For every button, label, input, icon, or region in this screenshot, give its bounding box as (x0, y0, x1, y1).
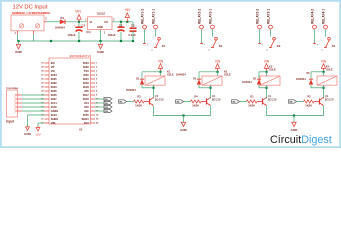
svg-text:RELAY1-1: RELAY1-1 (151, 9, 155, 24)
svg-text:+5V: +5V (35, 133, 40, 137)
svg-text:IO23: IO23 (83, 61, 89, 65)
svg-text:1N4004: 1N4004 (126, 88, 136, 92)
resistor R2 (304, 100, 315, 103)
relay coil K2 (202, 76, 222, 85)
diode D3 (140, 80, 144, 85)
svg-text:U1: U1 (79, 128, 83, 132)
svg-text:RELAY2-2: RELAY2-2 (197, 9, 201, 24)
wire C2 to ground rail (120, 32, 122, 41)
node C2 junction (120, 21, 122, 23)
net tag IN2 at relay 2 (176, 100, 184, 103)
svg-text:100uF: 100uF (68, 33, 76, 37)
net tag IN3 at relay 3 (232, 100, 240, 103)
svg-text:K3: K3 (277, 44, 281, 48)
svg-text:RELAY3-1: RELAY3-1 (266, 9, 270, 24)
wire J1 pin2 to U1 (22, 98, 45, 100)
border frame (1, 1, 340, 147)
svg-text:IO12: IO12 (51, 105, 57, 109)
resistor R4 (191, 100, 202, 103)
junction C2 ground (120, 40, 122, 42)
svg-text:TOUCHPAD: TOUCHPAD (6, 87, 19, 90)
svg-text:GND: GND (15, 50, 23, 54)
wire D1 to VIN node (66, 21, 88, 23)
svg-text:VO: VO (104, 20, 108, 24)
relay coil K4 (317, 76, 337, 85)
svg-text:GND: GND (291, 128, 299, 132)
node VIN junction (78, 21, 80, 23)
wire C3 top (132, 22, 134, 27)
svg-text:1K00: 1K00 (305, 104, 312, 108)
svg-text:3V3: 3V3 (84, 121, 89, 125)
node coil 2 bottom (209, 87, 211, 89)
node coil 4 top (322, 71, 324, 73)
svg-text:0.1uF: 0.1uF (129, 33, 137, 37)
svg-text:IO35: IO35 (51, 77, 57, 81)
svg-text:Input: Input (6, 120, 15, 124)
svg-text:TX0: TX0 (84, 69, 89, 73)
svg-text:1K00: 1K00 (192, 104, 199, 108)
diode D1 (60, 20, 65, 24)
svg-text:VIN: VIN (215, 59, 221, 63)
microcontroller module U1 ESP32 (49, 58, 91, 124)
diode D6 (309, 80, 313, 85)
svg-text:VIN: VIN (158, 59, 164, 63)
net tag IN3 (104, 105, 112, 108)
wire coil K1 bottom (153, 85, 155, 98)
wire VIN to coil K4 (323, 72, 325, 76)
node coil 4 bottom (322, 87, 324, 89)
regulator IC1 7805 (88, 17, 113, 30)
svg-text:1K00: 1K00 (248, 104, 255, 108)
svg-text:VI: VI (90, 20, 93, 24)
connector RELAY3-2 pin (258, 25, 262, 29)
wire VIN to coil K1 (160, 72, 162, 76)
ground symbol relays 1-2 (183, 116, 185, 119)
svg-text:IO34: IO34 (51, 73, 57, 77)
wire RELAY1-1 down (155, 29, 157, 36)
svg-text:IO14: IO14 (51, 101, 57, 105)
svg-text:IO0: IO0 (84, 105, 89, 109)
ground symbol relays 3-4 (293, 116, 295, 119)
node coil 1 top (159, 71, 161, 73)
ground symbol IC1 (100, 41, 102, 45)
junction ground bus right (293, 114, 295, 116)
connector RELAY4-2 pin (313, 25, 317, 29)
wire U1 to net tag IN4 (95, 110, 104, 112)
wire C2 top (120, 22, 122, 27)
net tag IN1 at relay 1 (119, 100, 127, 103)
diode D6 loop wire (311, 71, 324, 73)
svg-text:R2: R2 (307, 94, 311, 98)
wire emitter Q2 to ground (323, 106, 325, 115)
svg-text:SHD1: SHD1 (82, 117, 90, 121)
svg-text:K4: K4 (332, 44, 336, 48)
svg-text:IO22: IO22 (83, 65, 89, 69)
svg-text:BD139: BD139 (268, 97, 277, 101)
wire IC1 GND pin to rail (100, 30, 102, 42)
diode D5 loop wire (259, 71, 267, 73)
svg-text:VIN: VIN (264, 59, 270, 63)
diode D3 loop wire (142, 71, 161, 73)
svg-text:K1: K1 (162, 44, 166, 48)
wire VIN node to C1 (78, 22, 80, 27)
svg-text:BD139: BD139 (155, 97, 164, 101)
wire C1 to ground rail (78, 32, 80, 41)
connector X1 screw terminal (11, 15, 44, 31)
svg-text:G5LE: G5LE (167, 73, 174, 77)
svg-text:VN: VN (51, 69, 55, 73)
net tag IN4 (104, 109, 112, 112)
svg-text:IO21: IO21 (83, 77, 89, 81)
svg-text:BD139: BD139 (325, 97, 334, 101)
svg-text:G5LE: G5LE (224, 73, 231, 77)
wire RELAY2-1 down (212, 29, 214, 36)
junction rail mid (50, 40, 52, 42)
wire J1 pin5 to U1 (22, 110, 45, 112)
ground rail wire (19, 40, 134, 42)
wire RELAY2-2 down (201, 29, 203, 43)
diode D4 loop wire (199, 71, 218, 73)
wire coil K3 bottom (266, 85, 268, 98)
node +5V junction (126, 21, 128, 23)
wire U1 to net tag IN2 (95, 102, 104, 104)
capacitor C3 (130, 27, 137, 29)
svg-text:IO26: IO26 (51, 93, 57, 97)
wire terminal pin2 to D1 (47, 21, 60, 23)
wire tag to resistor R3 (127, 101, 134, 103)
svg-text:SHD2: SHD2 (51, 117, 59, 121)
junction IC1 ground (99, 40, 101, 42)
relay K1 contact (158, 37, 161, 40)
svg-text:R3: R3 (137, 94, 141, 98)
svg-text:C3: C3 (131, 23, 135, 27)
wire IC1 VO to C3 (112, 21, 133, 23)
svg-text:1N4004: 1N4004 (242, 80, 252, 84)
wire emitter Q4 to ground (210, 106, 212, 115)
svg-text:G5LE: G5LE (269, 68, 276, 72)
wire ground bus relays 3-4 (267, 115, 324, 117)
relay coil K1 (145, 76, 165, 85)
svg-text:IO27: IO27 (51, 97, 57, 101)
svg-text:G5LE: G5LE (326, 68, 333, 72)
wire ground bus relays 1-2 (154, 115, 211, 117)
connector RELAY1-2 pin (143, 25, 147, 29)
svg-text:BD139: BD139 (212, 97, 221, 101)
ground symbol U1 (26, 127, 30, 131)
svg-text:RELAY4-1: RELAY4-1 (321, 9, 325, 24)
svg-text:RELAY4-2: RELAY4-2 (310, 9, 314, 24)
svg-text:IO33: IO33 (51, 85, 57, 89)
svg-text:GND: GND (97, 50, 105, 54)
connector RELAY1-1 pin (154, 25, 158, 29)
svg-text:7805T: 7805T (96, 12, 105, 16)
svg-text:GND1: GND1 (51, 109, 59, 113)
relay K3 contact (273, 37, 276, 40)
svg-text:IO16: IO16 (83, 97, 89, 101)
svg-text:IO17: IO17 (83, 93, 89, 97)
relay K2 contact (215, 37, 218, 40)
svg-text:ESP32DEVKITV1: ESP32DEVKITV1 (70, 54, 92, 58)
svg-text:GND: GND (180, 128, 188, 132)
net tag IN4 at relay 4 (289, 100, 297, 103)
net tag IN1 (104, 97, 112, 100)
svg-text:12V DC Input: 12V DC Input (13, 5, 48, 11)
svg-text:VP: VP (51, 65, 55, 69)
node coil 3 bottom (265, 87, 267, 89)
svg-text:+5V: +5V (124, 8, 131, 12)
wire J1 pin3 to U1 (22, 102, 45, 104)
junction C3 ground (132, 40, 134, 42)
wire U1 GND1 to ground (28, 114, 45, 116)
svg-text:1N4004: 1N4004 (296, 77, 306, 81)
node coil 1 bottom (152, 87, 154, 89)
wire U1 to net tag IN1 (95, 98, 104, 100)
svg-text:R4: R4 (194, 94, 198, 98)
wire RELAY3-1 down (270, 29, 272, 36)
wire VIN to coil K2 (217, 72, 219, 76)
svg-text:VIN: VIN (75, 10, 81, 14)
wire C3 to ground rail (132, 31, 134, 41)
svg-text:IO13: IO13 (51, 113, 57, 117)
svg-text:IO19: IO19 (83, 81, 89, 85)
svg-text:IO25: IO25 (51, 89, 57, 93)
transistor Q2 (319, 99, 321, 105)
svg-text:RELAY2-1: RELAY2-1 (208, 9, 212, 24)
wire terminal pin1 to ground rail (17, 34, 19, 41)
svg-text:1K00: 1K00 (135, 104, 142, 108)
svg-text:IO5: IO5 (84, 89, 89, 93)
svg-text:RELAY3-2: RELAY3-2 (255, 9, 259, 24)
wire U1 to net tag IN3 (95, 106, 104, 108)
wire U1 VIN to +5V (38, 122, 45, 124)
svg-text:IC1: IC1 (87, 30, 92, 34)
diode D4 (197, 80, 201, 85)
connector RELAY2-2 pin (200, 25, 204, 29)
junction C1 ground (78, 40, 80, 42)
junction ground bus left (182, 114, 184, 116)
svg-text:IO32: IO32 (51, 81, 57, 85)
junction terminal ground (17, 40, 19, 42)
svg-text:IO4: IO4 (84, 101, 89, 105)
capacitor C1 (76, 26, 83, 28)
wire emitter Q3 to ground (153, 106, 155, 115)
svg-text:VIN: VIN (51, 121, 56, 125)
wire J1 pin1 to U1 (22, 94, 45, 96)
transistor Q1 (262, 99, 264, 105)
wire VIN to coil K3 (266, 72, 268, 76)
wire tag to resistor R1 (240, 101, 247, 103)
svg-text:1N4004: 1N4004 (176, 72, 186, 76)
svg-text:R1: R1 (250, 94, 254, 98)
svg-text:D1: D1 (61, 16, 65, 20)
relay K4 contact (328, 37, 331, 40)
node coil 3 top (265, 71, 267, 73)
svg-text:1N4004: 1N4004 (55, 25, 65, 29)
svg-text:RELAY1-2: RELAY1-2 (140, 9, 144, 24)
capacitor C2 (118, 26, 125, 28)
wire RELAY1-2 down (144, 29, 146, 43)
wire RELAY4-1 down (325, 29, 327, 36)
wire tag to resistor R2 (297, 101, 304, 103)
connector RELAY4-1 pin (324, 25, 328, 29)
node coil 2 top (216, 71, 218, 73)
wire RELAY4-2 down (314, 29, 316, 43)
relay coil K3 (260, 76, 280, 85)
wire terminal pin to ground rail (33, 34, 35, 41)
wire coil K4 bottom (323, 85, 325, 98)
wire emitter Q1 to ground (266, 106, 268, 115)
connector RELAY2-1 pin (211, 25, 215, 29)
svg-text:VIN: VIN (321, 59, 327, 63)
connector J1 input header (7, 90, 18, 117)
svg-text:GND: GND (97, 25, 103, 29)
transistor Q4 (206, 99, 208, 105)
svg-text:CírcuitDigest: CírcuitDigest (270, 134, 332, 146)
net tag IN2 (104, 101, 112, 104)
svg-text:IO2: IO2 (84, 109, 89, 113)
diode D5 (257, 80, 261, 85)
transistor Q3 (149, 99, 151, 105)
svg-text:RX0: RX0 (83, 73, 89, 77)
wire coil K2 bottom (210, 85, 212, 98)
wire tag to resistor R4 (184, 101, 191, 103)
svg-text:IO15: IO15 (83, 113, 89, 117)
svg-text:100uF: 100uF (108, 33, 116, 37)
svg-text:BORNIER2_1 SCREWTERMINAL: BORNIER2_1 SCREWTERMINAL (12, 12, 51, 15)
wire RELAY3-2 down (259, 29, 261, 43)
svg-text:IO18: IO18 (83, 85, 89, 89)
svg-text:GND: GND (24, 132, 32, 136)
supply +5V at U1 (36, 127, 40, 131)
resistor R3 (134, 100, 145, 103)
svg-text:K2: K2 (219, 44, 223, 48)
resistor R1 (247, 100, 258, 103)
wire J1 pin4 to U1 (22, 106, 45, 108)
ground symbol input section (18, 41, 20, 45)
svg-text:EN: EN (51, 61, 55, 65)
connector RELAY3-1 pin (269, 25, 273, 29)
